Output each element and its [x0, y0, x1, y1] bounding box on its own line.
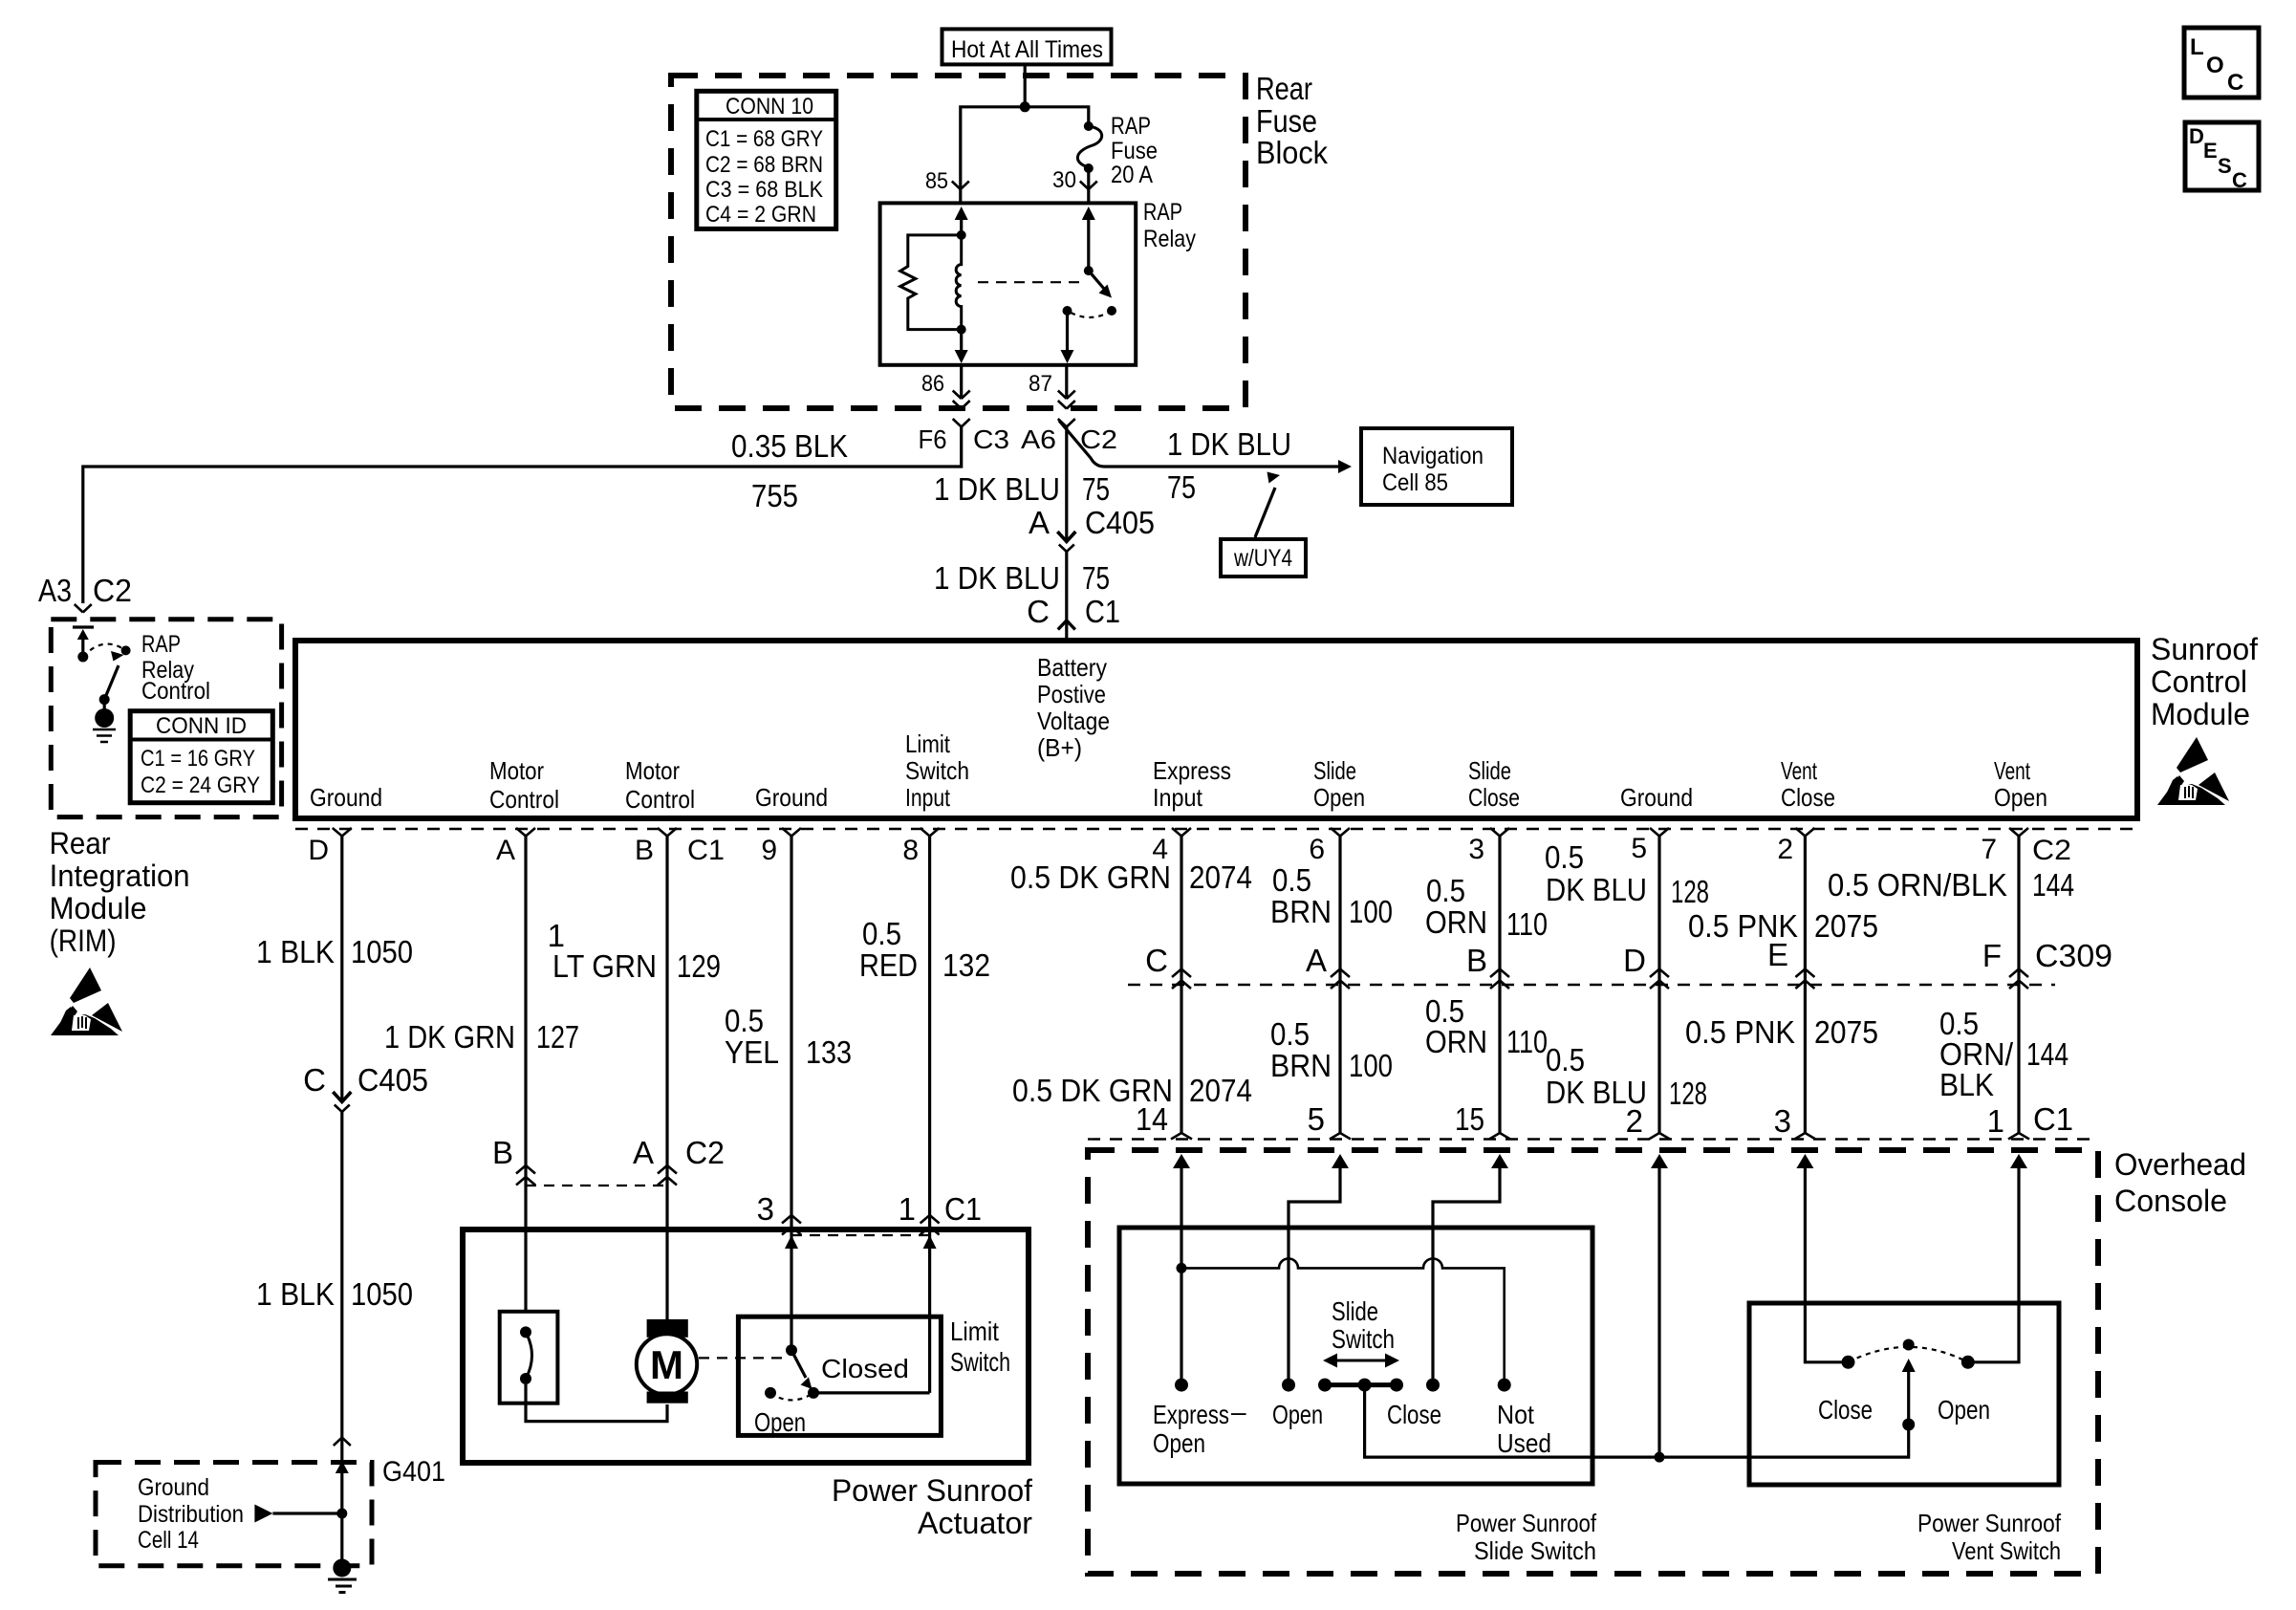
svg-text:Control: Control [489, 785, 559, 814]
svg-text:Overhead: Overhead [2114, 1147, 2246, 1182]
svg-text:Open: Open [1994, 783, 2047, 812]
connector F / C309 [1982, 938, 2112, 989]
svg-text:Control: Control [141, 678, 210, 705]
relay contact: throw node [1107, 306, 1116, 315]
wire: hot feed down [1024, 64, 1027, 107]
svg-text:B: B [1466, 943, 1487, 978]
svg-text:132: 132 [942, 947, 990, 983]
dashed travel arc (relay) [1068, 311, 1113, 317]
limit switch pivot [786, 1344, 797, 1356]
svg-text:Navigation: Navigation [1382, 443, 1484, 469]
connector 5 (console) [1308, 1101, 1351, 1140]
module pin row dashed line [295, 828, 2137, 830]
svg-text:Slide: Slide [1468, 756, 1511, 785]
label: 0.5 PNK 2075 (row1) [1688, 908, 1878, 944]
svg-text:Actuator: Actuator [918, 1506, 1032, 1540]
svg-text:15: 15 [1455, 1101, 1484, 1137]
connector A (C309) [1306, 943, 1350, 989]
svg-text:Module: Module [50, 891, 147, 925]
svg-text:1050: 1050 [351, 1276, 413, 1312]
pin function: Express Input (4) [1153, 756, 1231, 812]
relay switch arm arrow [1089, 271, 1112, 297]
svg-text:2075: 2075 [1814, 1014, 1878, 1050]
svg-text:LT GRN: LT GRN [552, 948, 657, 984]
caption: Power Sunroof Slide Switch [1456, 1509, 1597, 1565]
svg-text:A: A [1029, 505, 1050, 540]
svg-text:D: D [2189, 124, 2204, 148]
svg-text:3: 3 [757, 1191, 774, 1227]
svg-text:Ground: Ground [1620, 783, 1693, 812]
contact: Not Used [1498, 1379, 1511, 1392]
svg-text:0.35 BLK: 0.35 BLK [731, 428, 848, 464]
connector 14 (console) [1136, 1101, 1192, 1140]
dashed travel arc (vent) [1849, 1347, 1968, 1362]
limit contact: Open [765, 1387, 776, 1399]
svg-text:110: 110 [1506, 1024, 1548, 1059]
pin 87 exit [1029, 365, 1075, 409]
connector 15 (console) [1455, 1101, 1510, 1140]
contact: Close (vent) [1842, 1356, 1855, 1369]
svg-text:C309: C309 [2035, 938, 2112, 973]
pin 7 / C2 [1981, 834, 2071, 866]
svg-text:Postive: Postive [1037, 680, 1106, 708]
svg-text:BRN: BRN [1270, 1048, 1332, 1083]
svg-text:w/UY4: w/UY4 [1233, 545, 1292, 572]
svg-text:Module: Module [2151, 697, 2250, 731]
svg-text:Rear: Rear [1256, 71, 1312, 106]
svg-text:C1 = 16 GRY: C1 = 16 GRY [141, 746, 255, 772]
svg-text:0.5: 0.5 [1270, 1016, 1310, 1052]
pin B / C1 [635, 835, 725, 866]
svg-text:C2 = 24 GRY: C2 = 24 GRY [141, 772, 260, 798]
contact: Close [1426, 1379, 1440, 1392]
pin function: Motor Control (A) [489, 756, 559, 814]
svg-text:0.5: 0.5 [1546, 1042, 1585, 1077]
wire: pin 8 0.5 RED 132 [928, 837, 931, 1393]
svg-text:1 DK BLU: 1 DK BLU [934, 471, 1060, 507]
svg-text:(B+): (B+) [1037, 733, 1082, 762]
label: 1 DK BLU 75 (above C1) [934, 560, 1110, 596]
connector C / C1 (module B+) [1027, 594, 1120, 630]
svg-text:2075: 2075 [1814, 908, 1878, 944]
svg-text:Switch: Switch [1332, 1324, 1395, 1354]
dashed connector link B-A [526, 1185, 667, 1186]
label: 0.35 BLK 755 [731, 428, 848, 513]
svg-text:C: C [1145, 943, 1168, 978]
svg-text:C2 = 68 BRN: C2 = 68 BRN [705, 152, 823, 178]
svg-text:75: 75 [1167, 469, 1196, 505]
svg-text:C3 = 68 BLK: C3 = 68 BLK [705, 177, 823, 203]
svg-text:B: B [635, 835, 654, 866]
component box: Power Sunroof Slide Switch [1119, 1228, 1592, 1484]
clutch contact top [520, 1326, 531, 1338]
junction: coil top node [957, 230, 966, 240]
svg-text:Slide: Slide [1332, 1296, 1378, 1326]
svg-text:Cell 14: Cell 14 [138, 1527, 199, 1554]
module pin connectors [333, 828, 2028, 837]
resistor R (coil suppression) [900, 235, 962, 330]
pin function: Battery Postive Voltage (B+) [1037, 653, 1110, 762]
svg-text:0.5: 0.5 [1272, 862, 1311, 898]
svg-text:Rear: Rear [50, 826, 111, 860]
svg-text:G401: G401 [382, 1456, 445, 1488]
module: Sunroof Control Module box [295, 641, 2137, 818]
svg-text:5: 5 [1631, 833, 1647, 864]
wire: pin 3 slide close 0.5 ORN 110 [1498, 837, 1501, 1134]
connector A / C405 [1029, 505, 1155, 552]
svg-text:75: 75 [1082, 471, 1110, 507]
clutch switch box [500, 1312, 558, 1403]
svg-text:Switch: Switch [905, 756, 969, 785]
wire entering console pin 14 [1173, 1154, 1190, 1385]
svg-text:Switch: Switch [950, 1347, 1010, 1377]
wiper common wire to vent switch [1365, 1385, 1909, 1458]
svg-text:Express: Express [1153, 756, 1231, 785]
svg-text:C2: C2 [685, 1135, 725, 1170]
label: 0.5 BRN 100 (row2) [1270, 1016, 1393, 1083]
svg-text:2: 2 [1777, 834, 1793, 865]
svg-text:Open: Open [1272, 1400, 1323, 1429]
label: Rear Fuse Block [1256, 71, 1328, 170]
bus wire to Not Used contact (with hops) [1181, 1258, 1505, 1384]
connector A / C2 [633, 1135, 725, 1186]
wire: pin D ground 1 BLK 1050 [340, 837, 343, 1102]
contact: Express-Open [1175, 1379, 1188, 1392]
wire: coil to pin 86 exit [955, 330, 968, 363]
svg-text:Vent Switch: Vent Switch [1952, 1536, 2061, 1565]
svg-text:0.5 PNK: 0.5 PNK [1685, 1014, 1795, 1050]
svg-text:0.5: 0.5 [1426, 873, 1465, 908]
svg-text:Power Sunroof: Power Sunroof [1917, 1509, 2062, 1537]
svg-text:87: 87 [1029, 371, 1052, 397]
label: 0.5 YEL 133 [725, 1003, 852, 1070]
svg-text:6: 6 [1309, 834, 1325, 865]
label: 0.5 ORN 110 (row2) [1425, 993, 1548, 1059]
svg-text:C1: C1 [1085, 594, 1120, 629]
svg-text:Block: Block [1256, 135, 1328, 170]
svg-text:B: B [492, 1135, 513, 1170]
connector C (C309) [1145, 943, 1191, 989]
ground G401 symbol [328, 1559, 357, 1593]
svg-text:2074: 2074 [1189, 1073, 1252, 1108]
svg-text:Ground: Ground [755, 783, 828, 812]
svg-text:Sunroof: Sunroof [2151, 632, 2258, 666]
pin 86 exit [921, 365, 970, 409]
Rear Fuse Block dashed enclosure [671, 76, 1245, 408]
svg-text:Power Sunroof: Power Sunroof [832, 1473, 1032, 1508]
dashed travel arc (limit) [770, 1393, 813, 1401]
svg-text:Close: Close [1387, 1400, 1441, 1429]
svg-text:Closed: Closed [821, 1354, 909, 1383]
svg-text:BRN: BRN [1270, 894, 1332, 929]
fuse F1: RAP Fuse 20 A [1077, 121, 1101, 173]
svg-text:Motor: Motor [489, 756, 544, 785]
Ground Distribution dashed enclosure [96, 1463, 372, 1566]
off-page arrow from Ground Distribution [254, 1505, 341, 1523]
label: 0.5 ORN 110 (row1) [1425, 873, 1548, 942]
arrow into actuator (wire 9) [785, 1235, 798, 1249]
wire: branch to relay pin 85 [961, 107, 1025, 189]
label: 1 LT GRN 129 [548, 918, 721, 984]
relay coil feed from pin 85 [955, 207, 968, 235]
pin function: Slide Open (6) [1313, 756, 1365, 812]
ground connector G401 [334, 1438, 445, 1489]
label: Slide Switch [1332, 1296, 1395, 1354]
svg-text:0.5: 0.5 [725, 1003, 764, 1038]
svg-text:RAP: RAP [1143, 199, 1182, 226]
svg-text:C: C [1027, 594, 1050, 629]
ground (RIM internal) [93, 700, 116, 742]
svg-text:S: S [2218, 154, 2232, 178]
relay contact: pin 87 node [1063, 306, 1072, 315]
svg-text:Vent: Vent [1994, 756, 2031, 785]
svg-text:Limit: Limit [905, 729, 951, 758]
wire: pin 2 vent close 0.5 PNK 2075 [1804, 837, 1807, 1134]
svg-text:Distribution: Distribution [138, 1501, 244, 1528]
svg-text:Cell 85: Cell 85 [1382, 469, 1448, 496]
switch throw node [121, 645, 131, 655]
svg-text:O: O [2206, 53, 2224, 78]
label: RAP Fuse 20 A [1111, 113, 1158, 188]
svg-text:86: 86 [921, 371, 944, 397]
svg-text:3: 3 [1468, 834, 1484, 865]
wire entering console pin 1 [1974, 1154, 2027, 1362]
svg-text:(RIM): (RIM) [50, 924, 117, 958]
svg-text:Limit: Limit [950, 1316, 999, 1346]
wire: clutch to motor [526, 1384, 667, 1422]
connector E (C309) [1767, 937, 1814, 989]
vent wiper arrow [1902, 1359, 1916, 1425]
label: 1 BLK 1050 [256, 934, 413, 969]
label: Not Used [1497, 1400, 1551, 1458]
connector 1 / C1 (console) [1987, 1101, 2073, 1140]
wire entering console pin 3 [1796, 1154, 1842, 1362]
svg-text:0.5: 0.5 [862, 916, 901, 951]
label: 0.5 DK BLU 128 (row1) [1545, 839, 1709, 909]
slide switch wiper bar [1318, 1379, 1403, 1392]
label: 0.5 DK GRN 2074 (row2) [1012, 1073, 1252, 1108]
component box: Power Sunroof Vent Switch [1749, 1303, 2059, 1485]
svg-text:ORN: ORN [1425, 1024, 1487, 1059]
svg-text:110: 110 [1506, 906, 1548, 942]
svg-text:CONN ID: CONN ID [156, 713, 247, 739]
switch arm arrow [104, 651, 123, 700]
dashed link: motor to limit switch [699, 1357, 782, 1359]
wire: to C1 [1065, 552, 1068, 642]
svg-text:E: E [1767, 937, 1788, 972]
svg-text:C1: C1 [944, 1191, 982, 1227]
svg-text:128: 128 [1669, 1076, 1707, 1111]
svg-text:RAP: RAP [1111, 113, 1151, 140]
clutch contact bottom [520, 1373, 531, 1384]
junction: express bus tap [1177, 1263, 1187, 1273]
svg-text:Control: Control [625, 785, 695, 814]
svg-text:9: 9 [761, 835, 777, 866]
svg-text:RED: RED [859, 947, 918, 983]
svg-text:1 BLK: 1 BLK [256, 934, 335, 969]
contact: Open (vent) [1961, 1356, 1975, 1369]
double arrow: slide direction [1323, 1354, 1399, 1368]
contact: Open [1282, 1379, 1295, 1392]
svg-text:Fuse: Fuse [1111, 138, 1158, 164]
svg-text:75: 75 [1082, 560, 1110, 596]
wire: branch to RAP fuse [1025, 107, 1089, 125]
svg-text:Express: Express [1153, 1400, 1229, 1429]
wire: 1 DK BLU 75 down to C405 [1065, 442, 1068, 541]
label: 0.5 ORN/ BLK 144 (row2) [1939, 1006, 2069, 1102]
label: Overhead Console [2114, 1147, 2246, 1218]
svg-text:30: 30 [1052, 167, 1076, 193]
svg-text:1 DK BLU: 1 DK BLU [1167, 426, 1291, 462]
power label box: Hot At All Times [942, 29, 1112, 64]
wire: pin A motor control 1 DK GRN 127 [524, 837, 527, 1313]
svg-text:Motor: Motor [625, 756, 680, 785]
limit switch box [738, 1316, 941, 1435]
relay K1: RAP Relay box [880, 203, 1137, 364]
wire 0.35 BLK 755: relay 86 to RIM A3 [83, 442, 962, 603]
junction: G401 node [336, 1509, 347, 1519]
connector A6 / C2 [1021, 419, 1117, 454]
component box: Power Sunroof Actuator [463, 1229, 1029, 1463]
svg-text:A: A [1306, 943, 1327, 978]
connector C / C405 [303, 1062, 428, 1112]
dashed connector link 3-1 [791, 1234, 930, 1236]
wire entering console pin 2 [1651, 1154, 1668, 1457]
connector table CONN 10 [697, 91, 836, 228]
wire: contact to pin 87 exit [1061, 311, 1074, 363]
svg-text:0.5: 0.5 [1545, 839, 1584, 875]
svg-text:1 DK GRN: 1 DK GRN [384, 1019, 515, 1055]
component box: Navigation Cell 85 [1361, 428, 1512, 505]
caption: Power Sunroof Actuator [832, 1473, 1032, 1540]
svg-text:C405: C405 [357, 1062, 428, 1098]
svg-text:C: C [2232, 168, 2247, 192]
svg-text:100: 100 [1349, 1048, 1393, 1083]
pin function: Limit Switch Input (8) [905, 729, 969, 812]
svg-text:C: C [303, 1062, 326, 1098]
reference tab: LOC [2184, 28, 2259, 98]
connector A3 / C2 [38, 573, 132, 613]
svg-text:1: 1 [899, 1191, 916, 1227]
caption: Power Sunroof Vent Switch [1917, 1509, 2062, 1565]
label: Rear Integration Module (RIM) [50, 826, 190, 958]
svg-text:A: A [633, 1135, 654, 1170]
label: Ground Distribution Cell 14 [138, 1474, 244, 1554]
svg-text:–: – [1231, 1397, 1246, 1426]
svg-text:ORN: ORN [1425, 904, 1487, 940]
connector B (C2) [492, 1135, 535, 1186]
console pin row dashed line [1088, 1138, 2098, 1140]
svg-text:129: 129 [677, 948, 721, 984]
ESD sensitivity symbol (RIM) [51, 968, 122, 1035]
svg-text:14: 14 [1136, 1101, 1168, 1137]
svg-text:C405: C405 [1085, 505, 1155, 540]
ESD sensitivity symbol (module) [2157, 737, 2229, 805]
svg-text:Close: Close [1818, 1395, 1873, 1425]
pin function: Vent Close (2) [1781, 756, 1835, 812]
svg-text:C: C [2227, 70, 2243, 96]
wire: pin 7 vent open 0.5 ORN/BLK 144 [2017, 837, 2020, 1134]
svg-text:2: 2 [1626, 1103, 1643, 1139]
connector F6 / C3 [919, 419, 1010, 454]
svg-text:C1: C1 [2033, 1101, 2073, 1137]
svg-text:YEL: YEL [725, 1034, 779, 1070]
svg-text:Console: Console [2114, 1184, 2227, 1218]
svg-text:Ground: Ground [138, 1474, 209, 1501]
arrow into actuator (wire 8) [923, 1235, 937, 1249]
svg-text:Battery: Battery [1037, 653, 1107, 682]
RAP relay control contact bar and arrow [73, 627, 94, 657]
Rear Integration Module dashed enclosure [51, 620, 281, 817]
svg-text:Open: Open [754, 1407, 806, 1437]
svg-text:127: 127 [536, 1019, 579, 1055]
svg-text:85: 85 [925, 168, 948, 194]
wire to ground point [340, 1513, 343, 1560]
wire: pin 9 0.5 YEL 133 [790, 837, 792, 1351]
svg-text:128: 128 [1671, 874, 1709, 909]
svg-text:Ground: Ground [310, 783, 382, 812]
svg-text:C2: C2 [1080, 424, 1117, 454]
svg-text:Control: Control [2151, 664, 2247, 699]
svg-text:1: 1 [1987, 1103, 2004, 1139]
connector 1 / C1 [899, 1191, 982, 1235]
svg-text:5: 5 [1308, 1101, 1325, 1137]
svg-text:Not: Not [1497, 1400, 1534, 1429]
wire: closed contact to pin 1/C1 wire [813, 1391, 930, 1394]
label: 1 DK BLU 75 (above C405) [934, 471, 1110, 507]
pin 30 [1052, 167, 1097, 203]
svg-text:Close: Close [1781, 783, 1835, 812]
svg-text:Input: Input [1153, 783, 1203, 812]
limit contact: Closed [808, 1387, 819, 1399]
svg-text:F6: F6 [919, 424, 947, 454]
connector 3 [757, 1191, 801, 1235]
relay switch pivot [1084, 266, 1094, 275]
C309 connector row dashed line [1128, 984, 2055, 986]
svg-text:Used: Used [1497, 1428, 1551, 1458]
wire: 1 BLK 1050 to G401 [340, 1112, 343, 1513]
wire: pin 6 slide open 0.5 BRN 100 [1338, 837, 1341, 1134]
junction: coil bottom node [957, 325, 966, 335]
label: 1 BLK 1050 (lower) [256, 1276, 413, 1312]
label: 0.5 BRN 100 (row1) [1270, 862, 1393, 929]
svg-text:F: F [1982, 938, 2002, 973]
svg-text:C2: C2 [93, 573, 132, 608]
svg-text:Slide: Slide [1313, 756, 1356, 785]
svg-text:2074: 2074 [1189, 859, 1252, 895]
svg-text:RAP: RAP [141, 631, 181, 658]
label: 0.5 DK GRN 2074 (row1) [1010, 859, 1252, 895]
svg-text:100: 100 [1349, 894, 1393, 929]
label: 0.5 PNK 2075 (row2) [1685, 1014, 1878, 1050]
wire entering console pin 5 [1289, 1154, 1349, 1385]
svg-text:E: E [2203, 139, 2218, 163]
label: Express-Open [1153, 1397, 1246, 1458]
dashed travel arc (RIM driver) [83, 644, 126, 657]
svg-text:Vent: Vent [1781, 756, 1818, 785]
svg-text:8: 8 [902, 835, 919, 866]
svg-text:3: 3 [1774, 1103, 1791, 1139]
label: 1 DK GRN 127 [384, 1019, 579, 1055]
svg-text:0.5 ORN/BLK: 0.5 ORN/BLK [1828, 867, 2007, 903]
svg-text:Relay: Relay [1143, 226, 1196, 252]
svg-text:C3: C3 [973, 424, 1009, 454]
connector 3 (console) [1774, 1103, 1816, 1140]
travel apex node [1903, 1339, 1915, 1351]
svg-text:144: 144 [2032, 867, 2074, 903]
svg-text:C2: C2 [2032, 835, 2071, 866]
arm pivot node [99, 694, 110, 705]
